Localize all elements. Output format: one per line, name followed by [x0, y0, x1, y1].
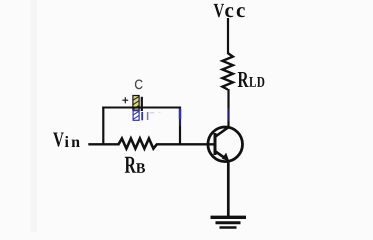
- net Vcc label: [214, 4, 224, 17]
- label RLD: [238, 72, 249, 87]
- transistor Q1 circle: [208, 127, 243, 162]
- wire RLD to collector: [227, 89, 229, 127]
- wire right leg of capacitor branch: [179, 107, 181, 145]
- transistor Q1 base bar: [214, 133, 217, 155]
- ground bar 1: [211, 216, 247, 219]
- transistor Q1 emitter diagonal: [216, 152, 228, 160]
- wire top of capacitor branch: [102, 107, 181, 109]
- capacitor C blue ghost plate: [141, 112, 143, 120]
- wire Vcc to RLD: [227, 18, 229, 54]
- wire RB to base: [156, 143, 214, 145]
- ground bar 3: [220, 226, 237, 229]
- wire emitter to ground: [227, 160, 230, 217]
- transistor Q1 emitter arrow: [222, 153, 229, 161]
- resistor RLD: [222, 53, 233, 90]
- wire across capacitor box: [132, 107, 141, 109]
- label C: [135, 80, 143, 90]
- label Vin: [53, 133, 64, 147]
- wire Vin to RB: [88, 143, 119, 145]
- wire blue tint on collector wire: [228, 108, 230, 121]
- capacitor C negative plate: [141, 97, 143, 111]
- wire blue segment on right leg: [179, 109, 181, 120]
- resistor RB: [119, 139, 157, 149]
- transistor Q1 collector diagonal: [216, 127, 230, 137]
- label RB: [125, 157, 136, 173]
- capacitor C plus sign: [122, 99, 128, 101]
- wire left leg of capacitor branch: [102, 107, 104, 145]
- capacitor C blue ghost box: [133, 111, 139, 121]
- ground bar 2: [216, 221, 241, 224]
- capacitor C positive plate box: [133, 96, 139, 111]
- faint background band: [31, 0, 38, 232]
- faint blue dashes under top wire: [147, 112, 149, 120]
